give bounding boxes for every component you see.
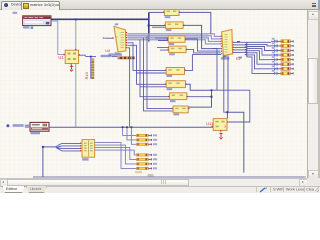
wire stub U8 pin2	[140, 86, 166, 88]
resistor R3	[281, 49, 294, 52]
resistor R4	[281, 54, 294, 57]
diode D3	[271, 47, 281, 52]
label blue near fan	[238, 57, 242, 59]
IC U1	[63, 49, 80, 65]
wire P2 out long	[49, 126, 213, 128]
wire fan row7	[247, 55, 271, 69]
svg-text:R10: R10	[84, 71, 89, 79]
status bar	[0, 186, 320, 194]
wire branch to U11	[226, 112, 228, 118]
U4 right pin ticks	[126, 32, 127, 48]
resistor R8	[281, 72, 294, 75]
junction RN1	[90, 56, 92, 58]
wires stairs group A from long net	[123, 127, 137, 144]
schematic canvas background	[0, 10, 307, 178]
label U3	[166, 29, 172, 31]
node KP1 label	[13, 12, 18, 14]
power flag below U11	[219, 132, 222, 139]
svg-text:U11: U11	[206, 121, 214, 126]
wire vertical net x75.8 upper	[75, 19, 77, 50]
wire keypad branch bottom	[43, 146, 56, 148]
tab1 icon	[4, 3, 8, 7]
label U6	[169, 53, 175, 55]
junction keypad branch	[42, 146, 44, 148]
label below J1	[82, 158, 88, 160]
wire stub U9 pin2	[144, 98, 170, 100]
label U9	[170, 100, 176, 102]
corner square	[307, 178, 320, 186]
label U8	[167, 88, 173, 90]
gate U7	[165, 68, 186, 75]
wire U9 out to junction	[187, 96, 212, 98]
sheet tab Editor	[2, 186, 25, 193]
gate U3	[164, 22, 184, 29]
junction bus tap	[148, 24, 150, 26]
bus B1 (thick horizontal)	[51, 18, 149, 20]
resistor R1	[281, 40, 294, 43]
resistor R14	[137, 154, 158, 156]
resistor R5	[281, 58, 294, 61]
wire vert to U9b	[144, 38, 174, 111]
J1 left pin ticks	[80, 143, 81, 152]
resistor R12	[137, 139, 158, 141]
stray label near bottom	[135, 171, 142, 173]
wire U3 left pin2	[152, 26, 165, 28]
resistor R15	[137, 158, 158, 160]
wire U6 out to U10	[186, 49, 221, 53]
wire bus tap to U3	[149, 25, 166, 27]
bundle glow band	[127, 34, 208, 40]
resistor network RN1 (vertical)	[91, 58, 94, 79]
canvas bottom inner border	[33, 176, 306, 178]
connector J1	[82, 140, 95, 158]
U10 left pin ticks	[221, 36, 223, 55]
svg-text:U1: U1	[58, 55, 64, 60]
bus ripper cluster	[55, 143, 61, 151]
wire fan row6	[247, 53, 271, 64]
wire fan pin3	[233, 46, 246, 48]
wire U1 out right	[79, 55, 96, 56]
top-right corner block	[318, 0, 320, 9]
U4 bottom gray wedge	[115, 52, 121, 54]
wire vert to U9c	[147, 36, 173, 109]
label below U10	[221, 57, 229, 59]
U10 right pin ticks	[233, 42, 234, 53]
gate U6	[167, 46, 187, 53]
gate U8	[165, 81, 187, 88]
resistor R11	[137, 134, 158, 136]
wire U5 out to U10	[185, 39, 221, 51]
fan pin marks	[237, 41, 240, 42]
wire fan row1	[233, 41, 271, 43]
label RN2 (blue)	[101, 55, 111, 57]
v thumb	[308, 58, 318, 104]
diode D6	[271, 61, 281, 66]
label U5	[169, 43, 175, 45]
wire fan pin4	[233, 49, 246, 51]
wire vertical net x75.8 lower	[75, 64, 77, 128]
gate U2	[163, 9, 180, 16]
junction U11 branch	[226, 111, 228, 113]
tabbar right mini buttons	[312, 3, 317, 5]
bottom scrollbar	[0, 178, 307, 187]
label U2	[165, 16, 171, 18]
wire fan row8	[247, 57, 271, 74]
power flag below U1	[70, 65, 73, 71]
label U7	[167, 75, 173, 77]
tab bar	[0, 0, 320, 10]
fan rail	[246, 42, 248, 57]
wire U10 bottom net down	[228, 55, 244, 172]
wire RN2 lead	[111, 56, 117, 58]
wire stub U7 pin2	[137, 72, 167, 74]
label under P1	[23, 26, 29, 28]
wire U7 out up	[185, 55, 222, 71]
resistor R2	[281, 44, 294, 47]
right edge strip	[318, 10, 320, 193]
junction on bus	[75, 18, 77, 20]
diode D8	[271, 70, 281, 75]
gate U5	[167, 36, 187, 43]
gate U9b	[172, 106, 190, 113]
wire bus to U2 pin	[149, 11, 165, 13]
diode D5	[271, 56, 281, 61]
wire staircase down left of U10	[212, 48, 217, 90]
status right cells	[256, 187, 257, 192]
junction net U8	[211, 89, 213, 91]
keypad panel P1 (maroon titled box)	[23, 16, 51, 26]
label below U4 (blue)	[108, 53, 122, 55]
wire U10 bottom net down 2	[224, 57, 228, 113]
junctions on long net	[122, 126, 124, 128]
wire net to U11 right	[212, 90, 250, 122]
label above U4	[115, 23, 118, 25]
U4 left terminal	[103, 37, 105, 39]
display module P2 (bottom-left)	[6, 122, 49, 131]
wire keypad branch vertical	[42, 147, 44, 178]
gate U9	[168, 93, 188, 100]
wire U4 pin6 down to U8	[127, 45, 166, 84]
resistor R17	[137, 167, 158, 169]
wire fan pin2	[233, 44, 246, 46]
wire fan row4	[247, 49, 271, 56]
wire fan row3	[247, 47, 271, 51]
junction U9 net	[211, 96, 213, 98]
resistor R7	[281, 67, 294, 70]
bus B1 vertical segment	[148, 12, 150, 41]
resistor R13	[137, 143, 158, 145]
icon next to P1 label	[31, 26, 34, 29]
bundle wires U4 to U10 (lavender band)	[127, 34, 220, 44]
decoder U10 (trapezoid)	[222, 30, 233, 56]
resistor R16	[137, 163, 158, 165]
wire U6 left pins	[157, 48, 169, 51]
wire U2 out to bundle	[179, 12, 211, 33]
wire fan row5	[247, 51, 271, 60]
tab2 icon	[23, 3, 29, 9]
U10 bottom pin stubs	[223, 56, 227, 58]
resistor network RN2 (horizontal beads)	[118, 57, 135, 59]
wire U8 out U-turn to U9b	[186, 84, 212, 107]
wire P1 branch to U1	[51, 21, 63, 55]
U4 left pin red tick	[112, 37, 113, 38]
wire fan row2	[247, 44, 271, 46]
svg-text:x: x	[224, 125, 226, 129]
right scrollbar	[307, 10, 319, 178]
diode D1	[271, 38, 281, 43]
wire U4 pin7 down long	[127, 48, 129, 127]
resistor R6	[281, 63, 294, 66]
wire vert to U9	[140, 40, 170, 97]
h thumb	[7, 179, 189, 186]
diode D4	[271, 52, 281, 57]
keyboard encoder U4 (trapezoid)	[114, 26, 126, 52]
wires J1 to resistor stairs	[95, 143, 137, 169]
wire fan pin5	[233, 51, 246, 53]
U4 left pin wire	[105, 37, 113, 39]
sheet tab 2	[26, 186, 47, 193]
wires ripper to J1	[62, 143, 81, 151]
svg-text:U4: U4	[105, 49, 110, 53]
diode D7	[271, 65, 281, 70]
IC U11	[212, 119, 229, 132]
wire U4 pin5 down to U7	[127, 43, 166, 71]
wire U3 out to U10	[183, 25, 221, 48]
diode D2	[271, 43, 281, 48]
label below P2	[30, 132, 40, 134]
wire U5 left pins	[155, 38, 168, 41]
label U9b	[174, 113, 180, 115]
